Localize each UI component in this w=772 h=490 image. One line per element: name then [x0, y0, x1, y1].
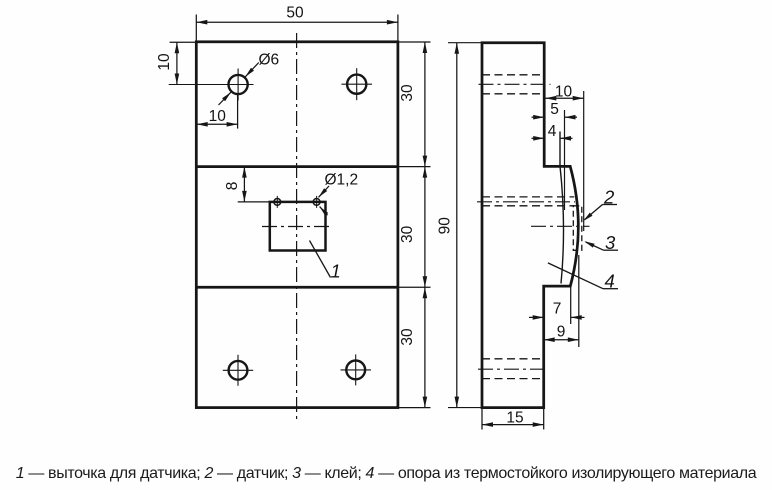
top edge extension to left (for 90 dim) [448, 42, 482, 44]
bottom edge extension to left (for 90 dim) [448, 407, 482, 409]
small hole left [274, 199, 281, 206]
dim 15 bottom [482, 424, 544, 426]
svg-text:5: 5 [550, 101, 559, 118]
extension line of dim 5 [564, 110, 566, 210]
dim 10 bottom of hole [197, 123, 238, 125]
extension line of dim 10 [583, 91, 585, 231]
sensor dashed rectangle (item 2) [573, 206, 582, 251]
side view outline [482, 43, 578, 408]
hole top-left [229, 75, 248, 94]
svg-text:30: 30 [399, 328, 416, 346]
SIDE VIEW [448, 43, 590, 408]
leader for label 1 [310, 241, 331, 278]
plate outline front view [196, 42, 398, 408]
svg-text:Ø1,2: Ø1,2 [325, 172, 359, 189]
dia1,2 leader arrows [319, 186, 330, 197]
side horizontal centerline middle [531, 225, 590, 227]
hole bottom-left [229, 361, 248, 380]
svg-text:90: 90 [437, 217, 454, 235]
small hole right [313, 199, 320, 206]
divider line lower [196, 286, 398, 289]
caption [0, 465, 772, 483]
svg-text:1: 1 [331, 261, 341, 282]
dia6 leader arrows [245, 63, 258, 77]
dim 50 top [196, 21, 398, 23]
hidden lines top hole projection [482, 74, 544, 76]
svg-text:4: 4 [548, 123, 557, 140]
svg-text:15: 15 [506, 410, 523, 427]
divider line upper [196, 165, 398, 168]
svg-text:30: 30 [399, 84, 416, 102]
hole top-right [347, 75, 366, 94]
svg-text:9: 9 [557, 324, 566, 341]
DIMENSIONS MAIN VIEW [170, 15, 460, 408]
svg-text:Ø6: Ø6 [259, 52, 280, 69]
pocket top edge extension left [238, 201, 270, 203]
dim 10 left vertical [176, 42, 178, 84]
SIDE VIEW DIMENSIONS [482, 96, 618, 430]
svg-text:50: 50 [286, 5, 304, 22]
svg-text:4: 4 [605, 271, 615, 292]
svg-text:2: 2 [603, 187, 615, 208]
horizontal centerline at pocket [262, 226, 333, 228]
svg-text:10: 10 [209, 108, 227, 125]
svg-text:3: 3 [605, 232, 616, 253]
leader label 2 [603, 204, 618, 206]
svg-text:8: 8 [224, 182, 241, 191]
hidden lines small hole projection [482, 196, 574, 198]
dim 30 chain right [398, 41, 431, 43]
dim 90 between views [456, 43, 458, 408]
svg-text:30: 30 [399, 225, 416, 243]
vertical centerline [296, 33, 298, 419]
svg-text:10: 10 [156, 53, 173, 71]
svg-text:7: 7 [553, 301, 562, 318]
support inner edge (item 4 face) [560, 132, 564, 284]
dim 9 bottom [544, 339, 579, 341]
leader label 4 [603, 288, 618, 290]
hidden lines bottom hole projection [482, 358, 544, 360]
dim 7 bottom [529, 316, 544, 318]
svg-text:10: 10 [555, 84, 573, 101]
dim 5 side [532, 116, 545, 118]
pocket (recess) rectangle [270, 202, 326, 251]
dim 8 [243, 167, 245, 202]
leader label 3 [604, 249, 619, 251]
dim 4 side [532, 137, 545, 139]
dim 10 side [545, 97, 583, 99]
hole bottom-right [346, 361, 365, 380]
